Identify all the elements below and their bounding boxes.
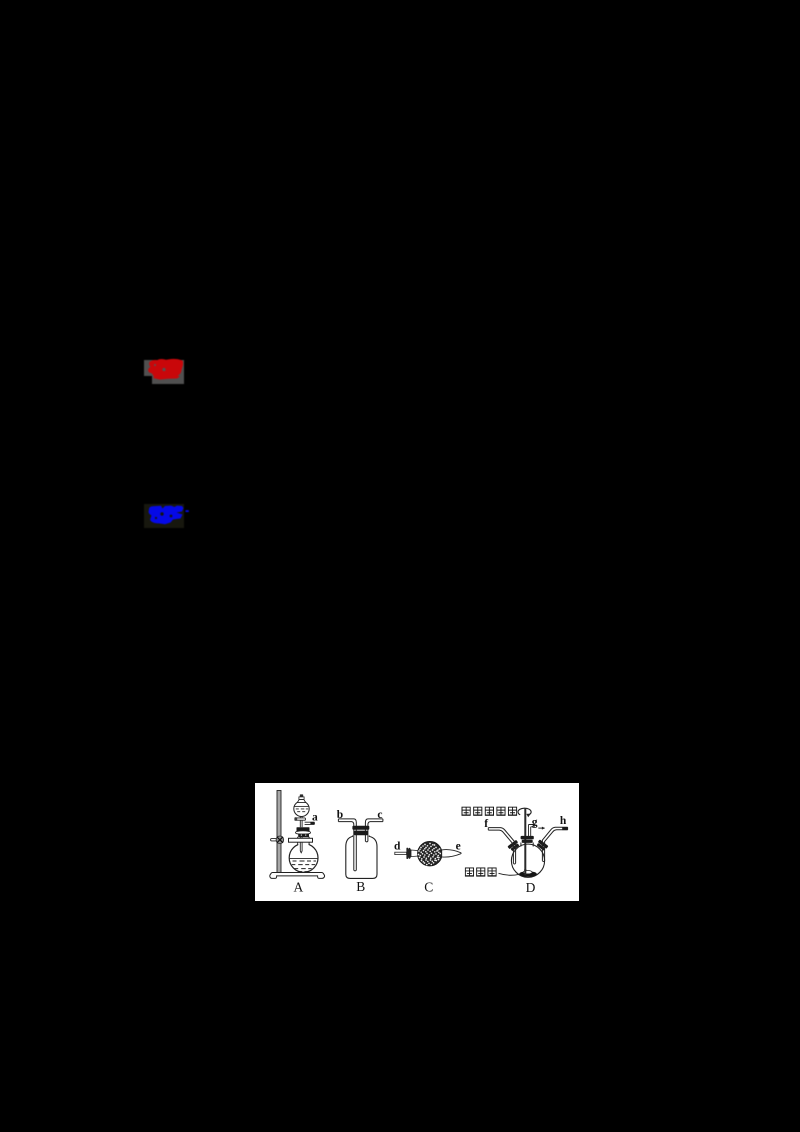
svg-text:f: f bbox=[484, 818, 488, 830]
svg-text:D: D bbox=[525, 880, 535, 895]
svg-text:d: d bbox=[394, 841, 401, 853]
svg-text:B: B bbox=[356, 879, 365, 894]
svg-text:h: h bbox=[559, 815, 566, 827]
svg-text:g: g bbox=[531, 817, 537, 829]
svg-text:b: b bbox=[336, 809, 342, 821]
svg-text:e: e bbox=[455, 840, 460, 852]
svg-text:c: c bbox=[377, 809, 382, 821]
svg-text:A: A bbox=[293, 880, 303, 895]
svg-text:a: a bbox=[312, 812, 318, 824]
svg-text:C: C bbox=[424, 880, 433, 895]
